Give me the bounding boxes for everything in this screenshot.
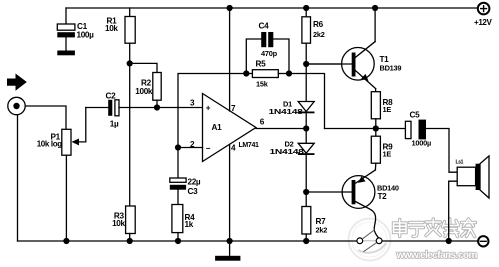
svg-text:C5: C5	[410, 111, 421, 120]
resistor R8	[371, 92, 380, 119]
diode D2	[305, 129, 307, 144]
svg-text:10k log: 10k log	[37, 140, 63, 149]
junction pin7 at +12V rail	[227, 5, 233, 11]
minus terminal	[478, 236, 488, 246]
switch S1 (open contacts on ground rail)	[357, 230, 382, 252]
resistor R5	[246, 73, 252, 75]
junction R7 at ground rail	[303, 238, 309, 244]
capacitor C5	[405, 121, 411, 138]
svg-text:C4: C4	[259, 22, 270, 31]
svg-text:6: 6	[260, 118, 265, 127]
transistor T1	[342, 48, 375, 81]
pin 6 output wire	[256, 128, 306, 130]
input arrow	[7, 74, 27, 91]
junction C4 right leg at R5	[286, 70, 292, 76]
watermark logo disk	[349, 219, 391, 261]
svg-text:4: 4	[231, 144, 236, 153]
svg-text:+12V: +12V	[474, 18, 493, 27]
svg-text:1000µ: 1000µ	[412, 139, 431, 148]
speaker LS1	[457, 167, 475, 186]
svg-text:1k: 1k	[185, 220, 194, 229]
ground (C1)	[57, 51, 75, 56]
pin 4 wire	[229, 145, 231, 242]
watermark CJK glyph blocks	[394, 219, 476, 237]
junction R8/R9 emitter output node	[373, 125, 379, 131]
junction R6/D1/T1 base node	[303, 61, 309, 67]
resistor R9	[375, 129, 377, 137]
svg-text:C3: C3	[188, 187, 199, 196]
emitter output rail	[325, 128, 406, 130]
svg-text:1E: 1E	[383, 150, 392, 159]
watermark text www.elecfans.com	[396, 250, 478, 261]
P1 wiper	[72, 139, 80, 146]
junction R3 at ground rail	[127, 238, 133, 244]
junction R6 at +12V rail	[303, 5, 309, 11]
wire R1/R3 column	[129, 63, 131, 206]
svg-text:10k: 10k	[105, 24, 118, 33]
svg-text:2k2: 2k2	[313, 30, 325, 39]
speaker lower wire	[449, 181, 458, 241]
resistor R3	[126, 206, 136, 234]
svg-text:1E: 1E	[383, 105, 392, 114]
svg-text:R5: R5	[256, 60, 267, 69]
bottom rail	[18, 240, 358, 242]
potentiometer P1	[62, 129, 71, 155]
svg-text:www.elecfans.com: www.elecfans.com	[396, 250, 478, 261]
jack ground wire	[17, 115, 19, 241]
transistor T2	[342, 176, 375, 209]
svg-text:+: +	[206, 104, 211, 113]
pin 7 wire	[229, 8, 231, 111]
svg-text:T2: T2	[378, 192, 388, 201]
resistor R7	[305, 192, 307, 207]
svg-text:22µ: 22µ	[188, 178, 201, 187]
svg-text:1µ: 1µ	[110, 119, 119, 128]
svg-text:100k: 100k	[135, 87, 153, 96]
resistor R2	[153, 73, 161, 101]
junction inverting input node	[175, 144, 181, 150]
resistor R4	[172, 205, 183, 233]
svg-text:C2: C2	[106, 92, 117, 101]
junction C4 left leg at R5	[243, 70, 249, 76]
pin 2 wire	[178, 147, 203, 149]
svg-text:LM741: LM741	[239, 142, 259, 149]
svg-text:1N4148: 1N4148	[269, 107, 303, 116]
capacitor C4 bracket	[246, 39, 261, 74]
T1 base wire	[306, 63, 353, 65]
diode D1	[305, 64, 307, 102]
junction R1/R2 divider node	[127, 60, 133, 66]
capacitor C2	[86, 107, 108, 109]
junction D2/R7/T2 base node	[303, 189, 309, 195]
resistor R1	[129, 8, 131, 17]
feedback wire to pin2	[178, 74, 246, 148]
svg-text:100µ: 100µ	[77, 31, 95, 40]
svg-text:2k2: 2k2	[316, 226, 328, 235]
wire C3 branch	[177, 148, 179, 179]
resistor R6	[305, 8, 307, 17]
svg-text:15k: 15k	[256, 80, 269, 89]
junction speaker return at rail	[446, 238, 452, 244]
wire C2 to pin3	[119, 107, 203, 109]
ground	[229, 241, 231, 256]
top rail	[66, 7, 478, 9]
svg-text:A1: A1	[212, 123, 223, 132]
svg-text:3: 3	[190, 99, 195, 108]
capacitor C3	[170, 178, 186, 182]
svg-text:7: 7	[231, 104, 236, 113]
op-amp A1	[203, 94, 257, 162]
svg-text:Ls1: Ls1	[456, 160, 464, 166]
junction R2 to +input	[154, 104, 160, 110]
feedback to output rail	[289, 74, 325, 129]
capacitor C1	[65, 8, 67, 24]
junction T1 collector at +12V rail	[372, 5, 378, 11]
svg-text:BD139: BD139	[380, 64, 402, 73]
junction P1 at ground rail	[63, 238, 69, 244]
junction R4 at ground rail	[175, 238, 181, 244]
junction pin4/ground at rail	[227, 238, 233, 244]
svg-text:1N4148: 1N4148	[270, 147, 304, 156]
svg-text:470p: 470p	[261, 49, 278, 58]
svg-text:−: −	[206, 144, 211, 153]
svg-text:10k: 10k	[112, 219, 125, 228]
wire to R2	[130, 63, 157, 72]
svg-text:R6: R6	[313, 20, 324, 29]
wire jack to P1	[25, 106, 66, 129]
+12V terminal	[478, 3, 490, 15]
RCA jack J1	[8, 97, 25, 114]
junction op-amp output D1/D2 node	[303, 125, 309, 131]
